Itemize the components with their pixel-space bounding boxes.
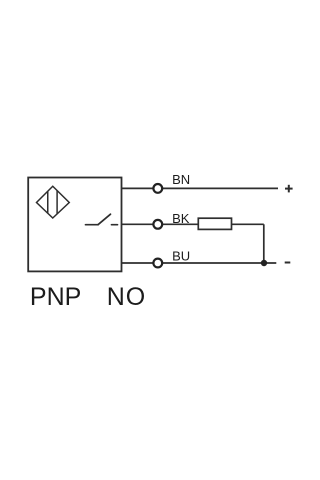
svg-text:BU: BU xyxy=(172,249,190,264)
svg-text:BK: BK xyxy=(172,211,190,226)
svg-text:PNP: PNP xyxy=(30,283,81,311)
svg-text:NO: NO xyxy=(107,283,147,311)
svg-text:BN: BN xyxy=(172,172,190,187)
